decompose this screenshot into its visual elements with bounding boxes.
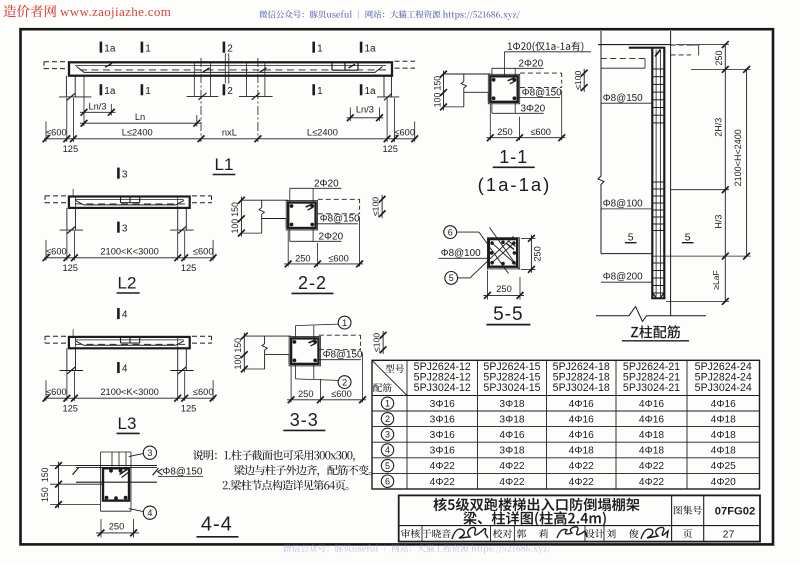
svg-text:2: 2 bbox=[342, 377, 347, 387]
section 2-2 adjacent beam dashed + ≤100 dim bbox=[318, 198, 360, 200]
L1 dim Ln/3 right bbox=[349, 108, 351, 122]
svg-text:≤600: ≤600 bbox=[530, 127, 551, 137]
L2 dimension extension lines bbox=[45, 240, 47, 261]
svg-text:4: 4 bbox=[147, 508, 152, 518]
svg-text:Φ8@150: Φ8@150 bbox=[163, 467, 203, 478]
svg-text:3: 3 bbox=[122, 223, 128, 234]
svg-text:2: 2 bbox=[227, 86, 233, 97]
svg-text:Ln: Ln bbox=[135, 112, 145, 122]
beam L2 body bbox=[69, 197, 190, 208]
section 5-5 corner hatch bbox=[507, 244, 515, 250]
svg-text:Ln/3: Ln/3 bbox=[356, 104, 374, 114]
svg-text:3: 3 bbox=[385, 430, 390, 440]
L3 section marker top bbox=[117, 308, 120, 319]
svg-text:≤600: ≤600 bbox=[46, 128, 67, 138]
svg-text:125: 125 bbox=[62, 263, 78, 273]
svg-text:125: 125 bbox=[382, 144, 398, 154]
svg-text:2100<H<2400: 2100<H<2400 bbox=[733, 129, 743, 186]
Z column foot hooks bbox=[651, 297, 665, 299]
section 2-2 bottom rebar label 2*20 bbox=[289, 228, 291, 241]
section 2-2 left slab and 150/100 dims bbox=[242, 199, 288, 201]
beam L1 bottom rebar bbox=[77, 67, 383, 73]
svg-text:1: 1 bbox=[145, 86, 151, 97]
svg-text:4: 4 bbox=[122, 364, 128, 375]
L3 section marker bottom bbox=[117, 362, 120, 373]
section 3-3 leader circle 1 bbox=[295, 326, 297, 339]
svg-text:2: 2 bbox=[227, 43, 233, 54]
L1 right support column bbox=[383, 76, 385, 97]
Z column inner dim line bbox=[724, 45, 726, 302]
svg-text:5: 5 bbox=[628, 231, 634, 243]
svg-text:250: 250 bbox=[109, 521, 125, 531]
svg-text:100: 100 bbox=[233, 355, 243, 370]
beam L3 right dashed stub bbox=[192, 335, 212, 337]
svg-text:5: 5 bbox=[449, 273, 454, 283]
svg-text:1a: 1a bbox=[365, 43, 377, 54]
title block signature row labels bbox=[401, 529, 420, 538]
Z column ground line with break bbox=[596, 307, 706, 322]
svg-text:H/3: H/3 bbox=[713, 215, 723, 229]
L1 section markers bottom row bbox=[100, 84, 103, 95]
Z column shaft bbox=[651, 47, 653, 298]
L2 left support column bbox=[66, 208, 68, 230]
svg-text:(1a-1a): (1a-1a) bbox=[478, 174, 552, 195]
svg-text:5PJ3024-18: 5PJ3024-18 bbox=[553, 382, 610, 394]
notes text shuoming bbox=[193, 450, 355, 462]
table row 2 bbox=[381, 413, 393, 425]
svg-text:1a: 1a bbox=[104, 86, 116, 97]
svg-text:3Φ16: 3Φ16 bbox=[430, 399, 455, 410]
svg-text:4Φ22: 4Φ22 bbox=[499, 477, 524, 488]
table row 6 bbox=[381, 475, 393, 487]
svg-text:2H/3: 2H/3 bbox=[713, 118, 723, 137]
L3 left support column bbox=[66, 348, 68, 370]
title Z column bbox=[631, 325, 680, 338]
L2 main dimension line bbox=[44, 257, 215, 259]
beam L1 body bbox=[69, 62, 392, 75]
svg-text:5PJ3024-24: 5PJ3024-24 bbox=[695, 382, 752, 394]
section 4-4 beam edge lines bbox=[76, 465, 157, 467]
svg-text:5: 5 bbox=[685, 231, 691, 243]
svg-text:3: 3 bbox=[122, 169, 128, 180]
section 5-5 bottom 250 dim bbox=[486, 270, 488, 299]
svg-text:≤100: ≤100 bbox=[372, 333, 382, 352]
svg-text:1a: 1a bbox=[365, 86, 377, 97]
svg-text:≤600: ≤600 bbox=[193, 247, 214, 257]
svg-text:4Φ16: 4Φ16 bbox=[569, 430, 594, 441]
svg-text:L≤2400: L≤2400 bbox=[307, 128, 338, 138]
table header diagonal cell bbox=[372, 360, 407, 395]
svg-text:3: 3 bbox=[147, 448, 152, 458]
signature scribble 1 bbox=[452, 528, 488, 540]
svg-text:3-3: 3-3 bbox=[290, 410, 319, 430]
svg-text:4Φ16: 4Φ16 bbox=[711, 399, 736, 410]
svg-text:250: 250 bbox=[497, 127, 513, 137]
beam L2 bottom rebar bbox=[75, 200, 183, 205]
L2 right support column bbox=[177, 208, 179, 230]
svg-text:150: 150 bbox=[432, 76, 442, 91]
section 4-4 leader circle 3 bbox=[143, 446, 156, 459]
svg-text:3Φ16: 3Φ16 bbox=[430, 446, 455, 457]
svg-text:4Φ16: 4Φ16 bbox=[639, 414, 664, 425]
svg-text:≤600: ≤600 bbox=[46, 387, 67, 397]
svg-text:4Φ18: 4Φ18 bbox=[711, 414, 736, 425]
svg-text:125: 125 bbox=[181, 403, 197, 413]
footer faint watermark bbox=[283, 544, 550, 554]
svg-text:≤600: ≤600 bbox=[193, 387, 214, 397]
svg-text:1: 1 bbox=[317, 86, 323, 97]
svg-text:4Φ22: 4Φ22 bbox=[430, 461, 455, 472]
beam L3 dashed axis bbox=[75, 343, 185, 345]
Z column top slab line bbox=[598, 44, 671, 46]
section 4-4 stirrup label phi8@150 bbox=[158, 469, 163, 475]
svg-text:07FG02: 07FG02 bbox=[715, 505, 755, 517]
svg-text:L1: L1 bbox=[215, 155, 234, 174]
section 3-3 adjacent beam dashed + ≤100 dim bbox=[319, 334, 361, 336]
svg-text:2: 2 bbox=[385, 414, 390, 424]
section 1-1 bottom rebar label 3*20 bbox=[491, 102, 493, 114]
svg-text:Φ8@150: Φ8@150 bbox=[320, 214, 360, 225]
beam L1 left dashed stub bbox=[44, 61, 68, 63]
svg-text:Φ8@150: Φ8@150 bbox=[323, 350, 363, 361]
table row 5 bbox=[381, 459, 393, 471]
svg-text:4Φ22: 4Φ22 bbox=[639, 461, 664, 472]
L2 section marker top bbox=[117, 168, 120, 179]
svg-text:≤600: ≤600 bbox=[46, 247, 67, 257]
table row 1 bbox=[381, 397, 393, 409]
L1 middle support column B bbox=[246, 62, 248, 96]
svg-text:250: 250 bbox=[532, 246, 542, 262]
svg-text:3Φ18: 3Φ18 bbox=[499, 414, 524, 425]
beam L3 bottom rebar bbox=[75, 341, 183, 346]
beam L1 bent-bar ticks bbox=[105, 63, 112, 67]
section 2-2 bottom 250/600 dims bbox=[287, 230, 289, 266]
svg-text:5PJ3024-15: 5PJ3024-15 bbox=[483, 382, 540, 394]
title block atlas number label bbox=[674, 506, 702, 515]
Z column slab dashed edge bbox=[601, 57, 645, 59]
svg-text:3Φ18: 3Φ18 bbox=[499, 399, 524, 410]
column section 1-1 core bbox=[488, 74, 519, 104]
svg-text:≤600: ≤600 bbox=[331, 389, 352, 399]
svg-text:4Φ22: 4Φ22 bbox=[569, 461, 594, 472]
svg-text:250: 250 bbox=[298, 389, 314, 399]
svg-text:3Φ16: 3Φ16 bbox=[430, 430, 455, 441]
section 4-4 bottom 250 dim bbox=[100, 519, 102, 538]
svg-text:250: 250 bbox=[496, 284, 512, 294]
beam L2 dashed axis bbox=[75, 203, 185, 205]
table row 3 bbox=[381, 428, 393, 440]
svg-text:4Φ16: 4Φ16 bbox=[639, 399, 664, 410]
beam L1 right dashed stub bbox=[395, 60, 416, 62]
table grid bbox=[372, 360, 760, 489]
svg-text:4Φ18: 4Φ18 bbox=[711, 446, 736, 457]
L1 dimension extension lines bbox=[45, 122, 47, 143]
Z column top anchor bar bbox=[629, 47, 665, 49]
svg-text:1: 1 bbox=[145, 43, 151, 54]
svg-text:4Φ16: 4Φ16 bbox=[499, 430, 524, 441]
svg-text:4Φ16: 4Φ16 bbox=[569, 399, 594, 410]
svg-text:≤100: ≤100 bbox=[573, 71, 583, 90]
svg-text:Φ8@150: Φ8@150 bbox=[603, 93, 643, 104]
svg-text:4Φ22: 4Φ22 bbox=[639, 477, 664, 488]
svg-text:Ln/3: Ln/3 bbox=[88, 101, 106, 111]
Z column right dim extension lines bbox=[676, 44, 729, 46]
section 3-3 bottom 250/600 dims bbox=[290, 366, 292, 402]
Z column ledge line bbox=[601, 253, 652, 255]
svg-text:150: 150 bbox=[230, 202, 240, 217]
section 5-5 leader circle 6 bbox=[444, 226, 457, 239]
svg-text:3Φ16: 3Φ16 bbox=[430, 414, 455, 425]
section 1-1 top rebar label 2*20 bbox=[491, 68, 493, 76]
beam L3 left dashed stub bbox=[45, 335, 66, 337]
section 3-3 left slab and 150/100 dims bbox=[245, 335, 291, 337]
header watermark red: zaojiazhe bbox=[4, 5, 57, 18]
svg-text:6: 6 bbox=[385, 476, 390, 486]
svg-text:nxL: nxL bbox=[222, 128, 237, 138]
L1 dim Ln bbox=[196, 115, 198, 127]
section 4-4 left 150/150 dims bbox=[50, 465, 76, 467]
section 5-5 leader circle 5 bbox=[445, 272, 458, 285]
svg-text:L2: L2 bbox=[118, 274, 137, 293]
svg-text:27: 27 bbox=[723, 529, 735, 541]
beam L3 stirrup boxes bbox=[120, 337, 122, 343]
title block main title bbox=[433, 498, 639, 511]
svg-text:4Φ22: 4Φ22 bbox=[430, 477, 455, 488]
svg-text:5-5: 5-5 bbox=[493, 304, 523, 325]
svg-text:≥LaF: ≥LaF bbox=[711, 270, 721, 290]
L3 dimension extension lines bbox=[45, 380, 47, 401]
L3 main dimension line bbox=[44, 397, 215, 399]
svg-text:1: 1 bbox=[342, 318, 347, 328]
svg-text:Φ8@200: Φ8@200 bbox=[603, 272, 643, 283]
svg-text:4Φ22: 4Φ22 bbox=[499, 461, 524, 472]
section 2-2 top rebar label 2*20 bbox=[289, 188, 291, 202]
svg-text:Φ8@150: Φ8@150 bbox=[522, 87, 562, 98]
svg-text:1: 1 bbox=[385, 398, 390, 408]
svg-text:100: 100 bbox=[432, 93, 442, 108]
section 1-1 left slab and 150/100 dims bbox=[444, 73, 490, 75]
svg-text:3Φ18: 3Φ18 bbox=[499, 446, 524, 457]
svg-text:≤600: ≤600 bbox=[328, 253, 349, 263]
svg-text:4Φ25: 4Φ25 bbox=[711, 461, 736, 472]
svg-text:5: 5 bbox=[385, 461, 390, 471]
svg-text:2100<K<3000: 2100<K<3000 bbox=[100, 387, 158, 397]
Z column outer dim line bbox=[746, 69, 748, 256]
Z column left wall line with break bbox=[598, 31, 604, 254]
header watermark blue: wechat/site info bbox=[259, 10, 520, 20]
svg-text:5PJ3024-12: 5PJ3024-12 bbox=[414, 382, 471, 394]
svg-text:250: 250 bbox=[714, 50, 724, 65]
svg-text:6: 6 bbox=[448, 227, 453, 237]
signature scribble 3 bbox=[641, 528, 668, 540]
section 5-5 right 250 dim bbox=[521, 237, 536, 239]
title block page label bbox=[683, 529, 692, 538]
section 4-4 column outline bbox=[100, 452, 102, 511]
column section 5-5 core bbox=[487, 238, 519, 269]
section 1-1 label 1*20 (only 1a-1a) bbox=[503, 52, 505, 77]
svg-text:≤600: ≤600 bbox=[394, 128, 415, 138]
beam L1 dashed axis bbox=[80, 69, 388, 71]
section 1-1 bottom 250/600 dims bbox=[489, 104, 491, 140]
table row 4 bbox=[381, 444, 393, 456]
svg-text:150: 150 bbox=[40, 487, 50, 502]
svg-text:Φ8@100: Φ8@100 bbox=[603, 199, 643, 210]
svg-text:L3: L3 bbox=[118, 414, 137, 433]
title block frame bbox=[399, 495, 760, 541]
L1 dim Ln/3 left bbox=[83, 76, 85, 126]
svg-text:www.zaojiazhe.com: www.zaojiazhe.com bbox=[60, 4, 171, 19]
section 5-5 cross ties X bbox=[492, 243, 514, 263]
svg-text:150: 150 bbox=[40, 467, 50, 482]
title block bottom row dividers bbox=[421, 526, 423, 542]
beam L2 right dashed stub bbox=[192, 195, 212, 197]
beam L1 stirrup boxes bbox=[331, 62, 333, 70]
section 4-4 leader circle 4 bbox=[143, 506, 156, 519]
svg-text:4Φ20: 4Φ20 bbox=[711, 477, 736, 488]
svg-text:125: 125 bbox=[63, 144, 79, 154]
svg-text:2Φ20: 2Φ20 bbox=[519, 58, 544, 69]
svg-text:1: 1 bbox=[317, 43, 323, 54]
svg-text:4Φ22: 4Φ22 bbox=[569, 477, 594, 488]
svg-text:2100<K<3000: 2100<K<3000 bbox=[100, 247, 158, 257]
svg-text:4Φ18: 4Φ18 bbox=[639, 430, 664, 441]
svg-text:3Φ20: 3Φ20 bbox=[521, 103, 546, 114]
svg-text:4Φ18: 4Φ18 bbox=[569, 446, 594, 457]
svg-text:1a: 1a bbox=[104, 43, 116, 54]
svg-text:2Φ20: 2Φ20 bbox=[319, 231, 344, 242]
svg-text:100: 100 bbox=[230, 219, 240, 234]
Z column right boundary line bbox=[670, 31, 672, 316]
section 4-4 column bars above joint bbox=[111, 452, 113, 467]
column section 3-3 core bbox=[289, 336, 320, 366]
svg-text:≤100: ≤100 bbox=[371, 197, 381, 216]
L1 left support column bbox=[65, 76, 67, 97]
svg-text:L≤2400: L≤2400 bbox=[122, 128, 153, 138]
svg-text:4-4: 4-4 bbox=[201, 514, 233, 536]
svg-text:4Φ18: 4Φ18 bbox=[711, 430, 736, 441]
L1 section markers top row bbox=[100, 42, 103, 53]
svg-text:1-1: 1-1 bbox=[499, 147, 528, 167]
section 3-3 leader circle 2 bbox=[295, 364, 297, 379]
beam L3 body bbox=[69, 337, 190, 348]
L1 middle support column A bbox=[193, 62, 195, 96]
svg-text:150: 150 bbox=[233, 338, 243, 353]
svg-text:4: 4 bbox=[122, 310, 128, 321]
beam L2 left dashed stub bbox=[45, 195, 66, 197]
beam L2 stirrup boxes bbox=[120, 197, 122, 203]
L2 section marker bottom bbox=[117, 222, 120, 233]
Z column top right dashed stub bbox=[671, 44, 691, 46]
svg-text:125: 125 bbox=[62, 403, 78, 413]
L3 right support column bbox=[177, 348, 179, 370]
svg-text:Φ8@100: Φ8@100 bbox=[441, 248, 481, 259]
Z column stirrup ticks bbox=[652, 68, 664, 70]
svg-text:2Φ20: 2Φ20 bbox=[314, 178, 339, 189]
column section 2-2 core bbox=[286, 201, 317, 231]
svg-text:4Φ18: 4Φ18 bbox=[639, 446, 664, 457]
svg-text:2-2: 2-2 bbox=[298, 273, 327, 293]
L1 main dimension line bbox=[44, 138, 417, 140]
beam L1 section cut lines 2-2 bbox=[224, 54, 226, 84]
svg-text:4: 4 bbox=[385, 445, 390, 455]
svg-text:250: 250 bbox=[295, 253, 311, 263]
svg-text:4Φ16: 4Φ16 bbox=[569, 414, 594, 425]
svg-text:5PJ3024-21: 5PJ3024-21 bbox=[623, 382, 680, 394]
svg-text:125: 125 bbox=[181, 263, 197, 273]
signature scribble 2 bbox=[557, 527, 587, 538]
section 1-1 adjacent beam dashed + ≤100 dim bbox=[520, 72, 562, 74]
section 4-4 stirrup square bbox=[103, 468, 129, 500]
